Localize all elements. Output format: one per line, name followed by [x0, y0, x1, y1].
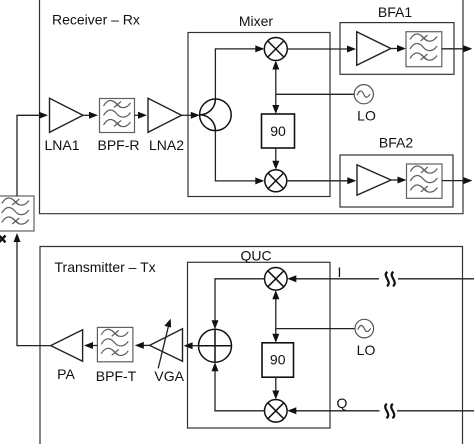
svg-text:LNA2: LNA2 [149, 137, 184, 153]
wire 90 box to mixer M4 [275, 377, 277, 397]
power splitter [200, 99, 232, 131]
wire splitter to top mixer [215, 49, 261, 99]
filter BPF-T [97, 327, 132, 361]
wire PA to duplexer [17, 236, 51, 346]
wire summer to VGA [187, 345, 199, 347]
svg-text:90: 90 [270, 352, 286, 368]
wire LO to mixer chain (Tx) [276, 328, 355, 330]
svg-text:90: 90 [270, 123, 286, 139]
QUC box [188, 262, 331, 428]
wire mixer M1 to BFA1 [287, 48, 353, 50]
transmitter outer box Tx [40, 247, 463, 444]
wire LO to mixer chain (Rx) [276, 93, 354, 95]
amplifier PA [51, 330, 83, 362]
wire BPF-R to LNA2 [135, 114, 145, 116]
local oscillator LO (Tx) [355, 319, 374, 338]
svg-text:Receiver – Rx: Receiver – Rx [52, 12, 140, 28]
wire LNA2 to splitter [182, 114, 198, 116]
BFA2 block [340, 155, 453, 207]
VGA gain control arrow [158, 322, 169, 369]
Q input wire [290, 410, 474, 412]
svg-text:QUC: QUC [240, 247, 271, 263]
svg-text:LO: LO [357, 108, 376, 124]
amplifier A2 in BFA2 [357, 165, 391, 195]
amplifier LNA2 [148, 98, 182, 132]
phase shifter 90 box (Rx) [262, 114, 295, 148]
wire mixer M3 to 90 box (double arrow) [275, 293, 277, 340]
break symbol on I wire [386, 272, 395, 287]
I input wire [290, 278, 474, 280]
svg-text:I: I [338, 264, 342, 280]
phase shifter 90 box (Tx) [262, 343, 294, 377]
duplexer filter DPX [0, 196, 34, 231]
mixer M1 (top) [264, 38, 287, 61]
summer S1 [199, 329, 232, 362]
wire 90 box to mixer M2 [275, 148, 277, 167]
wire duplexer to LNA1 [17, 115, 45, 196]
svg-text:Q: Q [337, 395, 348, 411]
svg-text:BPF-T: BPF-T [96, 368, 137, 384]
wire VGA to BPF-T [138, 344, 150, 346]
svg-text:Transmitter – Tx: Transmitter – Tx [55, 259, 156, 275]
svg-text:LO: LO [357, 342, 376, 358]
svg-text:BFA2: BFA2 [379, 135, 413, 151]
wire LNA1 to BPF-R [83, 114, 95, 116]
svg-text:LNA1: LNA1 [44, 137, 79, 153]
receiver outer box Rx [40, 0, 464, 214]
amplifier LNA1 [50, 98, 84, 132]
mixer M3 (I upconverter) [265, 268, 288, 291]
wire mixer M4 to summer [215, 365, 265, 411]
svg-text:BPF-R: BPF-R [98, 137, 140, 153]
BFA1 block [340, 23, 454, 75]
amplifier VGA [150, 329, 183, 362]
mixer M4 (Q upconverter) [265, 400, 288, 423]
filter F2 in BFA2 [407, 164, 443, 198]
svg-text:Mixer: Mixer [239, 13, 274, 29]
wire mixer M3 to summer [215, 279, 265, 327]
break symbol on Q wire [385, 404, 394, 419]
wire splitter to bottom mixer [215, 131, 261, 181]
wire A1 to filter F1 [391, 48, 403, 50]
mixer block box [188, 33, 330, 197]
filter F1 in BFA1 [406, 32, 442, 67]
wire A2 to filter F2 [391, 179, 404, 181]
svg-text:PA: PA [57, 366, 75, 382]
filter BPF-R [100, 99, 135, 133]
wire mixer M1 to 90 box (double arrow) [275, 63, 277, 111]
svg-text:VGA: VGA [154, 368, 184, 384]
mixer M2 (bottom) [265, 170, 287, 192]
svg-text:BFA1: BFA1 [378, 4, 412, 20]
amplifier A1 in BFA1 [357, 32, 391, 65]
wire BPF-T to PA [87, 345, 97, 347]
wire BFA1 output [442, 48, 470, 50]
antenna mark x (cut off) [0, 236, 6, 243]
local oscillator LO (Rx) [354, 85, 373, 104]
wire mixer M2 to BFA2 [287, 180, 354, 182]
wire BFA2 output [442, 180, 470, 182]
